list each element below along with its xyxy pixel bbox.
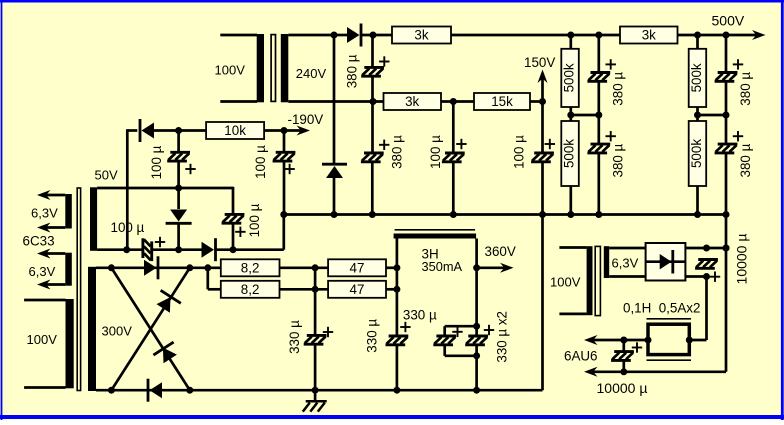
wire ladder2 cap chain mid: [725, 81, 728, 144]
wire diode D4 branch: [177, 188, 180, 209]
wire rectifier top lead: [685, 245, 729, 252]
wire corner up to bus: [280, 211, 287, 250]
label C15 plus: [452, 327, 462, 337]
wire C18 top: [622, 340, 625, 352]
svg-text:380 µ: 380 µ: [344, 54, 359, 88]
wire corner down to C11: [232, 187, 235, 215]
wire choke right lead: [473, 239, 480, 394]
diode D3 pointing up: [322, 164, 347, 178]
wire R12 to choke node: [386, 264, 400, 271]
wire corner to choke L2: [689, 339, 706, 342]
wire ladder1 cap chain top: [597, 35, 600, 73]
svg-text:330 µ: 330 µ: [365, 319, 380, 353]
resistor R8 500k: [689, 121, 707, 186]
transformer T1 core: [271, 35, 275, 102]
label C5 380u: [606, 59, 626, 105]
capacitor C5 380u: [587, 73, 610, 82]
svg-text:500k: 500k: [562, 139, 577, 168]
capacitor C18 10000u: [611, 352, 634, 361]
capacitor C11 100u: [222, 214, 245, 223]
wire R10 to R12: [280, 264, 329, 271]
capacitor C1 380u: [361, 67, 384, 76]
svg-text:10000 µ: 10000 µ: [734, 234, 750, 285]
transformer heater winding 6.3V lower: [29, 249, 72, 290]
wire C14 to ground bus: [393, 345, 400, 394]
capacitor C14 330u: [386, 336, 409, 345]
wire main bus: [284, 213, 726, 216]
label 6C33 tube: [23, 234, 55, 249]
transformer T1 secondary winding 240V: [281, 34, 384, 102]
wire node -190V cap branch: [283, 131, 286, 153]
wire D3 to bus: [331, 178, 338, 218]
diode D4 pointing down: [166, 210, 192, 224]
label 6AU6 tube: [564, 349, 598, 364]
wire R2 to R4: [441, 98, 474, 105]
label C12 100u: [111, 220, 166, 247]
svg-text:500k: 500k: [689, 139, 704, 168]
svg-text:380 µ: 380 µ: [611, 72, 626, 106]
svg-text:8,2: 8,2: [241, 260, 260, 275]
svg-text:6AU6: 6AU6: [564, 349, 598, 364]
svg-text:47: 47: [350, 260, 365, 275]
diode D2 bias rectifier: [140, 119, 154, 142]
wire C4 to bus: [539, 162, 546, 218]
wire C15 bottom link: [445, 345, 477, 356]
svg-text:100 µ: 100 µ: [111, 220, 145, 235]
transformer T2 core: [595, 246, 600, 315]
label C4 100u: [511, 135, 555, 169]
svg-text:47: 47: [350, 282, 365, 297]
resistor R12 47: [328, 259, 386, 276]
svg-text:6,3V: 6,3V: [31, 206, 58, 221]
wire choke L2 left lead / heater+ arrow: [584, 335, 648, 345]
svg-text:380 µ: 380 µ: [738, 143, 753, 177]
svg-text:330 µ: 330 µ: [403, 307, 437, 322]
svg-text:240V: 240V: [296, 66, 327, 81]
transformer main primary winding 100V: [24, 299, 74, 388]
resistor R2 3k: [384, 93, 442, 110]
capacitor C12 100u series: [143, 238, 152, 261]
resistor R3 500k: [561, 49, 579, 107]
label C9 100u: [149, 145, 196, 179]
svg-text:330 µ x2: 330 µ x2: [494, 311, 509, 363]
rectifier U1 bridge box: [646, 243, 686, 281]
label C10 100u: [253, 145, 295, 179]
label C18 10000u: [597, 342, 648, 396]
capacitor C6 380u: [587, 144, 610, 153]
svg-text:8,2: 8,2: [241, 282, 260, 297]
label C17 10000u: [710, 234, 750, 285]
wire C9 to 50V lead: [175, 161, 182, 191]
wire ladder1 resistor bottom lead: [567, 186, 574, 218]
label C6 380u: [606, 131, 626, 177]
wire bridge diagonal TL-BR: [111, 268, 189, 390]
wire bridge top edge: [96, 264, 221, 271]
wire node B down: [371, 35, 374, 67]
wire top rail to R1: [362, 34, 393, 37]
svg-text:10k: 10k: [224, 123, 246, 138]
wire R4 to node D: [530, 98, 546, 105]
wire C12 to D5: [153, 248, 202, 251]
wire node E down: [177, 131, 180, 153]
wire ladder2 cap chain top: [725, 35, 728, 73]
label C1 380u: [344, 54, 389, 88]
svg-text:350mA: 350mA: [422, 259, 463, 274]
diode D6 bridge top: [144, 256, 158, 279]
wire ladder1 resistor top lead: [569, 35, 572, 49]
svg-text:3k: 3k: [414, 28, 428, 43]
wire left riser x=127: [126, 129, 129, 249]
wire bridge bottom edge / ground bus: [96, 387, 543, 394]
wire node A down: [333, 35, 336, 163]
wire C18 bottom: [620, 360, 627, 375]
label C14 330u: [365, 307, 437, 352]
capacitor C8 380u: [715, 144, 738, 153]
label C8 380u: [733, 131, 753, 177]
label 150V output: [524, 55, 555, 99]
node B junction D1/C1: [370, 32, 377, 39]
resistor R1 3k: [392, 27, 451, 44]
label C13 330u: [287, 320, 333, 354]
wire branch row2: [208, 268, 221, 290]
svg-text:500k: 500k: [562, 63, 577, 92]
resistor R6 500k: [561, 121, 579, 186]
resistor R7 500k: [689, 49, 707, 107]
wire C17 node down: [705, 277, 708, 341]
svg-text:100 µ: 100 µ: [511, 135, 526, 169]
svg-text:100V: 100V: [215, 63, 246, 78]
svg-text:10000 µ: 10000 µ: [597, 380, 648, 396]
capacitor C16 330u: [465, 336, 488, 345]
capacitor C9 100u: [167, 152, 190, 161]
svg-text:100V: 100V: [550, 275, 581, 290]
wire ladder2 resistor top lead: [696, 35, 699, 49]
transformer main 50V winding: [90, 187, 97, 251]
wire ladder2 mid: [694, 107, 730, 121]
svg-text:100 µ: 100 µ: [149, 145, 164, 179]
wire node D down: [541, 102, 544, 154]
wire 50V top lead: [97, 187, 233, 190]
resistor R13 47: [328, 281, 386, 298]
diode D8 on diagonal to TR: [157, 290, 181, 312]
capacitor C7 380u: [715, 73, 738, 82]
wire C1 to node C: [370, 76, 377, 105]
inductor L2 0.1H choke: [623, 301, 700, 361]
wire R13 to choke node: [386, 286, 400, 293]
label 360V output: [477, 244, 516, 273]
diode D7 bridge bottom: [148, 379, 162, 402]
label C2 380u: [379, 135, 404, 169]
transformer main 300V winding: [88, 267, 132, 391]
diode D9 on diagonal to TL: [153, 342, 177, 363]
wire ladder2 cap chain bottom: [723, 153, 730, 218]
wire top rail to 500V arrow: [678, 34, 758, 37]
capacitor C2 380u: [361, 153, 384, 162]
svg-text:50V: 50V: [95, 168, 118, 183]
wire ladder1 mid: [567, 107, 602, 121]
wire rectifier bottom lead: [685, 273, 710, 280]
svg-text:100 µ: 100 µ: [428, 135, 443, 169]
transformer T1 primary winding 100V: [215, 34, 265, 102]
svg-text:6,3V: 6,3V: [29, 264, 56, 279]
label 50V: [95, 168, 118, 183]
label C11 100u: [235, 203, 262, 237]
wire D4 to lower lead: [175, 224, 182, 253]
label C16 330u: [484, 311, 510, 363]
node A junction 240V/D1: [331, 32, 338, 39]
capacitor C17 10000u: [695, 260, 718, 269]
wire ladder1 cap chain bottom: [595, 153, 602, 218]
resistor R10 8.2: [221, 259, 280, 276]
svg-text:6C33: 6C33: [23, 234, 55, 249]
wire ladder1 cap chain mid: [597, 81, 600, 144]
transformer T2 secondary winding 6.3V: [604, 246, 646, 278]
svg-text:500V: 500V: [712, 12, 745, 28]
wire 50V bottom lead: [97, 246, 142, 253]
svg-text:500k: 500k: [689, 63, 704, 92]
wire R11 to R13: [280, 286, 329, 293]
wire C11 to lower lead: [230, 223, 237, 253]
capacitor C13 330u: [304, 335, 327, 344]
label 500V output: [712, 12, 766, 40]
svg-text:3k: 3k: [405, 94, 419, 109]
svg-text:0,1H 0,5Ax2: 0,1H 0,5Ax2: [623, 301, 700, 316]
svg-text:15k: 15k: [491, 94, 513, 109]
svg-text:380 µ: 380 µ: [389, 135, 404, 169]
resistor R5 3k: [620, 27, 678, 44]
inductor L1 3H choke: [394, 230, 477, 274]
wire D5 to corner: [217, 248, 284, 251]
svg-text:100 µ: 100 µ: [253, 145, 268, 179]
capacitor C3 100u: [442, 153, 465, 162]
wire C10 to bus: [283, 161, 286, 214]
label C7 380u: [733, 59, 753, 105]
node ladder2 top: [694, 32, 730, 39]
resistor R11 8.2: [221, 281, 280, 298]
label -190V output: [264, 112, 323, 136]
svg-text:6,3V: 6,3V: [612, 256, 639, 271]
wire right edge of choke block: [541, 215, 544, 391]
resistor R4 15k: [474, 93, 530, 110]
svg-text:380 µ: 380 µ: [611, 143, 626, 177]
wire D2 to node E: [154, 127, 206, 134]
wire top rail R1 to ladder: [451, 34, 620, 37]
wire node R2R4 down: [452, 102, 455, 154]
capacitor C15 330u parallel: [433, 336, 456, 345]
wire corner to D2: [127, 129, 137, 132]
svg-text:3k: 3k: [642, 28, 656, 43]
wire bridge diagonal BL-TR: [111, 268, 189, 390]
diode D1 rectifier 500V rail: [334, 24, 361, 47]
wire C2 to bus: [369, 162, 376, 218]
transformer heater winding 6.3V upper: [31, 190, 72, 233]
diode D5 pointing right: [202, 238, 216, 261]
resistor R9 10k: [206, 122, 264, 139]
transformer main core: [77, 188, 80, 391]
transformer T2 primary winding 100V: [550, 246, 593, 315]
node ladder1 top: [567, 32, 602, 39]
svg-text:100 µ: 100 µ: [247, 203, 262, 237]
wire heater- return: [584, 367, 726, 377]
wire row cap branch: [314, 268, 317, 336]
label C3 100u: [428, 135, 467, 169]
svg-text:380 µ: 380 µ: [738, 72, 753, 106]
wire C3 to bus: [450, 162, 457, 218]
svg-text:-190V: -190V: [288, 112, 324, 127]
svg-text:100V: 100V: [27, 332, 58, 347]
wire C13 to ground bus: [312, 344, 319, 394]
svg-text:150V: 150V: [524, 55, 555, 70]
wire node C down: [371, 102, 374, 154]
svg-text:360V: 360V: [485, 244, 516, 259]
wire right rail down: [723, 215, 730, 372]
capacitor C10 100u: [273, 152, 296, 161]
capacitor C4 100u: [531, 153, 554, 162]
svg-text:300V: 300V: [102, 324, 133, 339]
svg-text:330 µ: 330 µ: [287, 320, 302, 354]
wire C15 top link: [445, 326, 477, 336]
wire ladder2 resistor bottom lead: [694, 186, 701, 218]
wire choke left lead: [396, 239, 399, 337]
ground symbol: [303, 390, 327, 411]
